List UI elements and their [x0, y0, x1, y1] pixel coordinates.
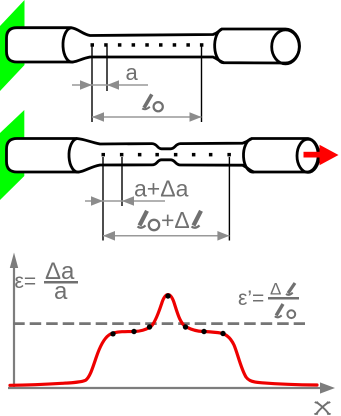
svg-text:Δ: Δ — [270, 280, 281, 299]
svg-text:a: a — [54, 278, 68, 305]
svg-text:ε=: ε= — [15, 270, 37, 293]
svg-text:ε’=: ε’= — [238, 287, 264, 310]
svg-text:a+Δa: a+Δa — [134, 176, 189, 202]
svg-text:a: a — [126, 60, 139, 85]
svg-text:+Δ: +Δ — [161, 207, 190, 233]
